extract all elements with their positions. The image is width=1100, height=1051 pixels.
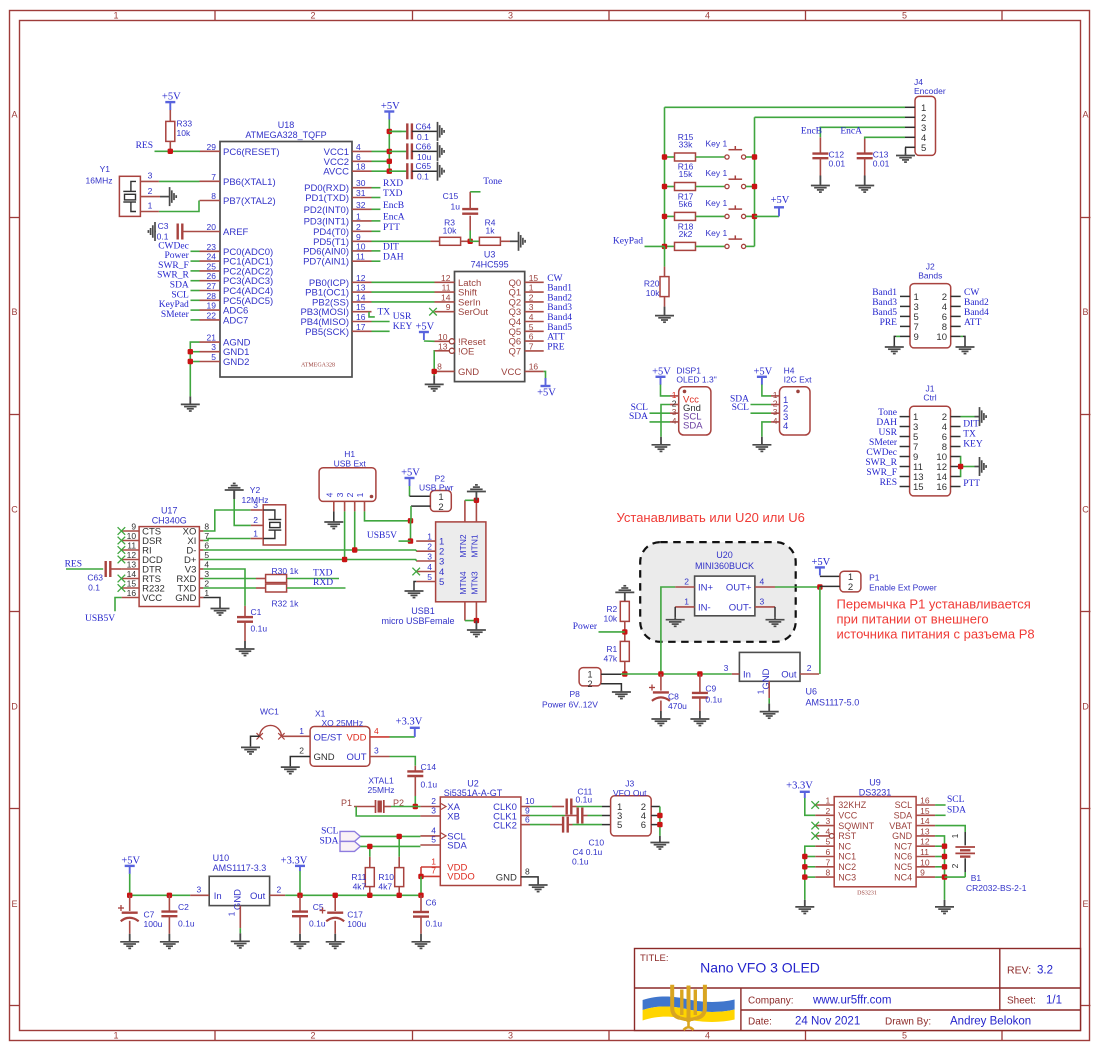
svg-text:Перемычка P1 устанавливается: Перемычка P1 устанавливается [837,597,1031,612]
svg-text:NC1: NC1 [838,852,856,862]
wire key to right bus [746,215,755,217]
H1 pin 4 [333,501,335,511]
microcontroller U18 ATMEGA328_TQFP body [220,142,352,378]
junction XA [413,804,418,809]
svg-text:KEY: KEY [393,322,413,332]
Y1 pin 2 to ground [140,196,160,198]
svg-text:R2: R2 [606,604,617,614]
svg-text:PD1(TXD): PD1(TXD) [305,193,349,204]
svg-text:C63: C63 [87,573,103,583]
usb uart U17 CH340G body [139,527,199,607]
USB1 pin 4 [416,571,435,573]
svg-text:In: In [214,891,222,902]
svg-text:AMS1117-3.3: AMS1117-3.3 [213,863,267,873]
svg-text:1/1: 1/1 [1046,995,1062,1007]
svg-text:3: 3 [508,1031,513,1041]
connector USB1 micro USBFemale body [436,522,486,602]
svg-text:C2: C2 [178,902,189,912]
svg-text:CWDec: CWDec [158,241,189,251]
svg-text:7: 7 [211,172,216,182]
svg-text:3: 3 [431,806,436,816]
svg-text:U2: U2 [467,779,479,789]
svg-text:OUT-: OUT- [729,602,752,613]
svg-text:Bands: Bands [918,271,942,281]
Y1 pin 3 [140,180,159,182]
svg-text:13: 13 [127,560,137,570]
ground C17 [334,934,336,942]
svg-text:!OE: !OE [458,346,474,357]
resistor R18 [665,245,675,247]
svg-text:SDA: SDA [447,841,467,852]
ground WC1 [250,746,252,747]
wire RES to PC6 [155,150,201,152]
wire U18 ground group [190,342,199,396]
svg-text:ATT: ATT [964,318,982,328]
junction NC6 [942,854,947,859]
svg-text:0.1u: 0.1u [421,780,438,790]
wire +5V to H4 pin1 [762,385,771,396]
svg-text:GND: GND [496,872,517,883]
U17 TXD wire to R32 [203,587,256,589]
svg-text:13: 13 [438,341,448,351]
junction C2 [167,893,172,898]
capacitor C2 [168,895,170,911]
wire +5V to P1 pin1 [820,575,840,577]
ground R20 [664,307,666,316]
svg-text:+5V: +5V [771,195,790,206]
svg-text:3: 3 [374,746,379,756]
ground C5 [299,934,301,942]
ground right of C66 [437,150,438,152]
ground DISP1 [660,437,662,445]
wire H1 pin1 to USB5V net [365,511,411,520]
svg-text:Out: Out [781,670,797,681]
U17 pin 6 D- [199,549,203,551]
wire USB5V label to junction [399,540,411,542]
svg-text:7: 7 [825,857,830,867]
svg-text:8: 8 [525,866,530,876]
svg-text:D: D [11,702,18,712]
junction left bus [662,214,667,219]
svg-text:11: 11 [356,252,365,262]
svg-text:C3: C3 [158,221,169,231]
capacitor C17 polarized [334,895,336,911]
ground J2 right [964,345,966,347]
svg-text:R32 1k: R32 1k [272,599,300,609]
svg-text:19: 19 [207,301,217,311]
junction +5V net [817,584,822,589]
svg-text:SerOut: SerOut [458,307,488,318]
no-connect marks U17 left [118,527,126,535]
wire C3 to AREF [182,231,199,233]
wire key to right bus [746,156,755,158]
U9 pin 15 SDA [916,814,935,816]
U3 left pins [435,281,455,283]
connector J1 Ctrl body [910,406,951,496]
wire Power label [599,631,625,633]
svg-text:KeyPad: KeyPad [613,236,643,246]
ground above Y2 [233,490,235,499]
wire H1 pin2 to D- [354,511,356,550]
svg-text:6: 6 [529,332,534,342]
svg-text:Power: Power [573,622,598,632]
wire P2 pin2 to USB5V net [411,505,430,507]
U17 pin 13 DTR [122,568,140,570]
svg-text:USB1: USB1 [411,606,435,616]
svg-text:SMeter: SMeter [161,310,190,320]
buck module U20 MINI360BUCK body [695,576,755,616]
svg-text:E: E [1082,899,1088,909]
svg-text:B: B [1082,307,1088,317]
wire WC1 left to ground [251,736,260,746]
svg-text:0.01: 0.01 [829,159,846,169]
svg-text:8: 8 [437,361,442,371]
svg-text:C15: C15 [443,191,459,201]
svg-text:Band3: Band3 [872,298,897,308]
svg-text:10k: 10k [603,613,617,623]
ground U20 IN- [674,618,676,620]
svg-text:3: 3 [335,492,345,497]
svg-text:2: 2 [529,292,534,302]
svg-text:5: 5 [211,352,216,362]
oscillator X1 XO 25MHz body [310,727,370,767]
svg-text:GND: GND [892,831,913,841]
U9 pin 9 NC4 [916,876,935,878]
wire IN- to ground [674,607,676,618]
regulator U10 AMS1117-3.3 body [209,876,269,905]
svg-text:U10: U10 [213,853,230,863]
svg-text:23: 23 [207,242,217,252]
U17 XI wire to Y2 pin1 [203,539,250,541]
ground right of R4 [517,240,520,242]
svg-text:A: A [1082,110,1088,120]
U3 VCC pin [525,370,544,372]
capacitor C64 [389,130,407,132]
svg-text:RXD: RXD [313,578,333,588]
display connector DISP1 OLED 1.3" body [679,387,711,435]
ground P8 [620,690,622,692]
svg-text:U6: U6 [806,686,818,696]
svg-text:ATMEGA328_TQFP: ATMEGA328_TQFP [245,130,326,140]
svg-text:C9: C9 [705,684,716,694]
svg-text:TXD: TXD [313,569,333,579]
svg-text:R1: R1 [606,644,617,654]
svg-text:2: 2 [848,582,853,593]
svg-text:27: 27 [207,281,217,291]
U3 GND pin [434,370,454,372]
wire key to right bus [746,186,755,188]
svg-text:Key 1: Key 1 [706,139,728,149]
svg-text:Y1: Y1 [100,164,111,174]
svg-text:Band1: Band1 [872,288,897,298]
junction C15 [468,239,473,244]
svg-text:Band3: Band3 [547,303,572,313]
resistor R17 [665,215,675,217]
svg-text:Band1: Band1 [547,284,572,294]
svg-text:25MHz: 25MHz [368,785,395,795]
no-connect marks U9 [811,801,819,809]
resistor R2 [624,600,626,602]
svg-text:10k: 10k [646,288,660,298]
svg-text:1: 1 [756,689,766,694]
svg-text:1: 1 [113,1031,118,1041]
USB1 mount pins top [464,500,466,522]
wire J4 pin1 to left bus [665,106,906,108]
svg-text:SDA: SDA [319,836,338,846]
USB1 pin 5 [416,581,435,583]
svg-text:15: 15 [913,482,924,493]
resistor R3 [440,237,461,245]
svg-text:25: 25 [207,261,217,271]
capacitor C11 [552,806,564,808]
ground C12 [819,176,821,186]
key switch Key 1 at row R18 [725,244,729,248]
svg-text:2k2: 2k2 [679,229,693,239]
svg-text:1: 1 [226,911,236,916]
wire SCL to DISP1 [650,412,671,414]
svg-text:1: 1 [148,201,153,211]
wire J4 pin5 to ground [904,147,907,153]
svg-text:Band5: Band5 [547,323,572,333]
junction VCC1 [387,149,392,154]
svg-text:4: 4 [705,1031,710,1041]
J2 pin 9 [900,335,910,337]
svg-text:CR2032-BS-2-1: CR2032-BS-2-1 [966,883,1027,893]
svg-text:2: 2 [253,515,258,525]
U9 pin 14 VBAT [916,825,935,827]
junction C8 [658,671,663,676]
bus entry SCL [340,831,360,841]
svg-text:SWR_F: SWR_F [158,261,189,271]
svg-text:DAH: DAH [383,253,404,263]
svg-text:32KHZ: 32KHZ [838,800,867,810]
U18 right pins [352,187,372,189]
wires U18 PB0-PB2 to U3 [372,281,435,283]
wire main input net [625,673,732,675]
jumper P1 Enable Ext Power body [840,571,861,592]
svg-text:C14: C14 [421,762,437,772]
capacitor C66 [389,150,407,152]
wire !OE to GND net [433,351,435,376]
svg-text:CWDec: CWDec [866,448,897,458]
key switch Key 1 at row R15 [725,155,729,159]
svg-text:P1: P1 [869,573,880,583]
svg-text:1: 1 [356,211,361,221]
USB1 pin 1 [416,540,435,542]
svg-text:EncA: EncA [383,212,405,222]
svg-text:VBAT: VBAT [889,821,912,831]
svg-text:10: 10 [356,241,366,251]
svg-text:PD2(INT0): PD2(INT0) [304,205,349,216]
svg-text:SDA: SDA [894,811,913,821]
DISP1 pin 1 Vcc [670,395,679,397]
junction VCC2 [387,159,392,164]
svg-text:DS3231: DS3231 [859,787,892,797]
svg-text:ADC7: ADC7 [223,315,248,326]
wire J4 pin4 EncA [865,137,905,139]
U20 pin OUT+ [755,586,775,588]
U9 pin 11 NC6 [916,856,935,858]
svg-text:EncB: EncB [801,127,822,137]
svg-text:5: 5 [431,835,436,845]
resistor R11 [369,846,371,856]
ground J1 pin2 [978,416,981,418]
wire R1 to main net [624,661,626,674]
U17 pin 2 TXD [199,587,203,589]
U17 pin 5 D+ [199,559,203,561]
svg-text:Power: Power [165,251,190,261]
junction NC7 [942,844,947,849]
wire +5V to DISP1 Vcc [661,385,671,396]
U9 pin 8 NC3 [815,876,834,878]
svg-text:GND: GND [232,889,243,910]
wire 3.3V rail [285,894,421,896]
wire J1 pin2 to ground [961,416,975,418]
J1 pin 6 [951,436,961,438]
svg-text:Encoder: Encoder [914,86,946,96]
svg-text:USR: USR [393,312,412,322]
junction +5V rail [127,893,132,898]
svg-text:Band4: Band4 [547,313,572,323]
svg-text:Tone: Tone [483,177,502,187]
wire USB1 pin5 to ground [414,582,416,591]
svg-text:SDA: SDA [947,805,966,815]
svg-text:Sheet:: Sheet: [1007,996,1036,1007]
U18 right net labels RXD TXD EncB EncA PTT [372,187,381,189]
svg-text:SCL: SCL [321,826,339,836]
ground left of C3 [155,231,156,233]
J1 pin 8 [951,446,961,448]
connector P8 body [579,668,601,686]
svg-text:GND2: GND2 [223,357,249,368]
junction J3 pin6 [657,822,662,827]
wire VCC to +5V [544,371,546,381]
svg-text:XTAL1: XTAL1 [368,775,394,785]
svg-text:2: 2 [310,1031,315,1041]
wire IN+ to input net [661,587,675,674]
dashed module box U20 [640,542,796,642]
svg-text:источника питания с разъема P8: источника питания с разъема P8 [837,627,1035,642]
svg-text:14: 14 [127,569,137,579]
svg-text:0.1u: 0.1u [309,918,326,928]
svg-text:1: 1 [113,11,118,21]
wire bus to R20 [664,246,666,266]
svg-text:RST: RST [838,831,857,841]
wire R20 to ground [664,297,666,307]
U20 pin IN+ [675,586,694,588]
svg-text:SWR_F: SWR_F [866,468,897,478]
svg-text:4: 4 [324,492,334,497]
junction right bus [752,154,757,159]
J4 pin 2 [905,116,915,118]
svg-text:GND: GND [175,593,196,604]
J1 pin 5 [900,436,910,438]
svg-text:0.1: 0.1 [157,232,169,242]
U9 pin 5 NC [815,845,834,847]
svg-text:Key 1: Key 1 [706,198,728,208]
USB1 pin 3 [416,560,435,562]
svg-text:16: 16 [356,312,366,322]
no-connect USB1 pin4 [412,568,420,576]
svg-text:28: 28 [207,291,217,301]
svg-text:14: 14 [441,292,451,302]
svg-text:Band2: Band2 [547,293,572,303]
U9 pin 3 SQWINT [815,825,834,827]
svg-text:U3: U3 [484,250,496,260]
svg-text:4: 4 [374,726,379,736]
U17 pin 12 DCD [122,559,140,561]
svg-text:www.ur5ffr.com: www.ur5ffr.com [812,995,891,1007]
svg-text:0.1u: 0.1u [251,624,268,634]
svg-text:CW: CW [547,274,562,284]
wire U17 D+ to USB1 [203,559,416,561]
svg-text:9: 9 [920,868,925,878]
wire J1 pins 10 12 14 [960,457,962,477]
shift register U3 74HC595 body [455,272,525,382]
svg-text:2: 2 [356,222,361,232]
J1 pin 1 [900,416,910,418]
svg-text:SCL: SCL [171,290,189,300]
svg-text:1: 1 [355,492,365,497]
wire SCL bus to U2 [360,835,420,837]
J2 pin 1 [900,295,910,297]
svg-text:11: 11 [920,847,929,857]
capacitor C10 [565,815,578,817]
svg-text:B1: B1 [971,873,982,883]
svg-text:4k7: 4k7 [353,881,367,891]
ground C1 [244,641,246,649]
svg-text:PD3(INT1): PD3(INT1) [304,216,349,227]
wire J2 pin10 to ground [961,335,963,337]
U17 RXD wire to R30 [203,578,256,580]
junction R33/RES [168,149,173,154]
svg-text:TITLE:: TITLE: [640,953,669,964]
svg-text:5: 5 [902,11,907,21]
svg-text:DIT: DIT [963,420,979,430]
svg-text:B: B [11,307,17,317]
wire R33 to RES net [169,141,171,151]
svg-text:1k: 1k [486,226,496,236]
capacitor C12 [819,137,821,153]
svg-text:14: 14 [920,816,930,826]
svg-text:MTN3: MTN3 [470,571,480,594]
svg-text:PB6(XTAL1): PB6(XTAL1) [223,177,276,188]
wire CLK2 to C4 [530,824,550,826]
U17 pin 14 RTS [122,578,140,580]
U17 pin 11 RI [122,549,140,551]
junction NC1 [802,854,807,859]
svg-text:Key 1: Key 1 [706,168,728,178]
svg-text:10: 10 [127,531,137,541]
net label TX at PB3 [369,312,375,317]
svg-text:PTT: PTT [383,223,400,233]
capacitor C5 [299,895,301,911]
svg-text:Y2: Y2 [250,485,261,495]
ground above R2 [624,592,626,601]
J1 pin 4 [951,426,961,428]
wire U17 D- to USB1 [203,549,416,551]
U17 pin 10 DSR [122,540,140,542]
svg-text:15: 15 [920,806,930,816]
capacitor C1 [244,606,246,617]
svg-text:Drawn By:: Drawn By: [885,1017,931,1028]
svg-text:4: 4 [705,11,710,21]
J2 pin 4 [951,305,961,307]
USB1 mount pins bottom [464,602,466,621]
J2 pin 3 [900,305,910,307]
svg-text:In: In [743,670,751,681]
svg-text:2: 2 [950,863,960,868]
